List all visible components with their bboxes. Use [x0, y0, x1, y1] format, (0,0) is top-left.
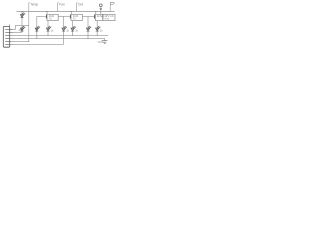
junction rail x box K1 — [46, 11, 47, 12]
wire circle pole to box K4 — [101, 12, 103, 17]
junction D3A x bus1 — [72, 35, 73, 36]
wire box K2 to corner3 — [82, 15, 88, 17]
net flag Temp tick — [29, 2, 30, 4]
power port circle — [99, 4, 102, 7]
junction pole x bus3 — [28, 41, 29, 42]
wire bus2 end to ground — [104, 38, 106, 40]
connector J1 pin 6 — [5, 43, 13, 45]
power port circle pole — [100, 7, 102, 11]
LED D1 column — [21, 12, 23, 26]
diode D2B — [62, 26, 67, 31]
junction rail x box K3 — [95, 11, 96, 12]
connector J1 pin 1 — [5, 28, 13, 30]
wire rail to box K1 top — [46, 12, 48, 15]
junction B1 x bus2 — [36, 38, 37, 39]
net flag 2 pole — [57, 3, 59, 12]
junction D2A x bus1 — [47, 35, 48, 36]
box K1 pin bar — [45, 15, 47, 19]
diode D3B — [86, 26, 91, 31]
wire starB3 column to bus2 — [87, 31, 89, 38]
wire pin 29.3 riser to y25.4 — [12, 25, 29, 29]
svg-text:1kΩ: 1kΩ — [73, 14, 79, 18]
wire box K2 bottom to diode D3A — [72, 21, 74, 28]
svg-text:5%: 5% — [73, 19, 76, 21]
power flag VCC pole — [109, 6, 111, 11]
diode D4A — [96, 26, 101, 31]
box K2 — [71, 14, 82, 20]
connector J1 pin 4 — [5, 37, 13, 39]
wire corner2 to starB2 column — [63, 16, 65, 27]
connector J1 pin 2 — [5, 31, 13, 33]
ground symbol — [102, 41, 108, 44]
wire corner1 to starB1 and box1 — [37, 16, 47, 38]
wire corner3 to box K3 — [88, 15, 95, 17]
wire LED column through diode to pin wire — [21, 25, 23, 32]
box K3 — [95, 14, 103, 20]
svg-text:Fan: Fan — [59, 2, 65, 6]
net flag Temp pole — [28, 3, 30, 12]
net flag 3 pole — [76, 3, 78, 12]
power flag VCC — [110, 2, 114, 6]
wire corner2 to box K2 — [64, 15, 71, 17]
box K1 — [47, 14, 58, 20]
junction D4A x bus1 — [97, 35, 98, 36]
diode D2A — [46, 26, 51, 31]
box K2 pin bar — [69, 15, 71, 19]
svg-text:relay: relay — [104, 18, 110, 21]
wire bus4 — [10, 43, 64, 45]
wire box K1 bottom to diode D2A — [47, 21, 49, 28]
wire diode D3A to bus1 — [72, 31, 74, 35]
wire box K3 bottom to diode D4A — [96, 21, 98, 28]
connector pin1 mark — [9, 24, 11, 26]
wire starB2 column down to bus4 — [63, 31, 65, 44]
junction rail x LED column — [21, 11, 22, 12]
box K3 pin bar — [94, 15, 96, 19]
junction B3 x bus2 — [87, 38, 88, 39]
svg-text:1kΩ: 1kΩ — [49, 14, 55, 18]
svg-text:12V 1A: 12V 1A — [104, 14, 114, 18]
connector J1 pin 3 — [5, 34, 13, 36]
svg-text:Out: Out — [78, 2, 83, 6]
LED D1 — [20, 13, 25, 18]
svg-text:5%: 5% — [49, 19, 52, 21]
wire pin 32.3 to LED column — [12, 31, 22, 33]
svg-text:Temp: Temp — [30, 2, 38, 6]
diode D1A — [20, 26, 25, 31]
wire rail to box K3 top — [95, 12, 97, 15]
svg-text:GND: GND — [98, 41, 104, 44]
wire flag pole down to bus3 — [28, 12, 30, 42]
wire bus1 — [10, 34, 108, 36]
wire corner3 to starB3 column — [87, 16, 89, 27]
svg-text:1k: 1k — [97, 14, 101, 18]
wire bus3 — [10, 40, 29, 42]
wire diode D2A to bus1 — [47, 31, 49, 35]
wire top power rail — [17, 11, 115, 13]
junction rail x box K2 — [71, 11, 72, 12]
wire bus2 — [10, 37, 105, 39]
diode D3A — [71, 26, 76, 31]
box K4 pin bar — [102, 15, 104, 19]
wire rail to box K2 top — [70, 12, 72, 15]
connector J1 pin 5 — [5, 40, 13, 42]
wire box K1 to corner2 — [58, 15, 63, 17]
diode D1B — [35, 26, 40, 31]
wire diode D4A to bus1 — [96, 31, 98, 35]
box K4 — [103, 14, 115, 20]
